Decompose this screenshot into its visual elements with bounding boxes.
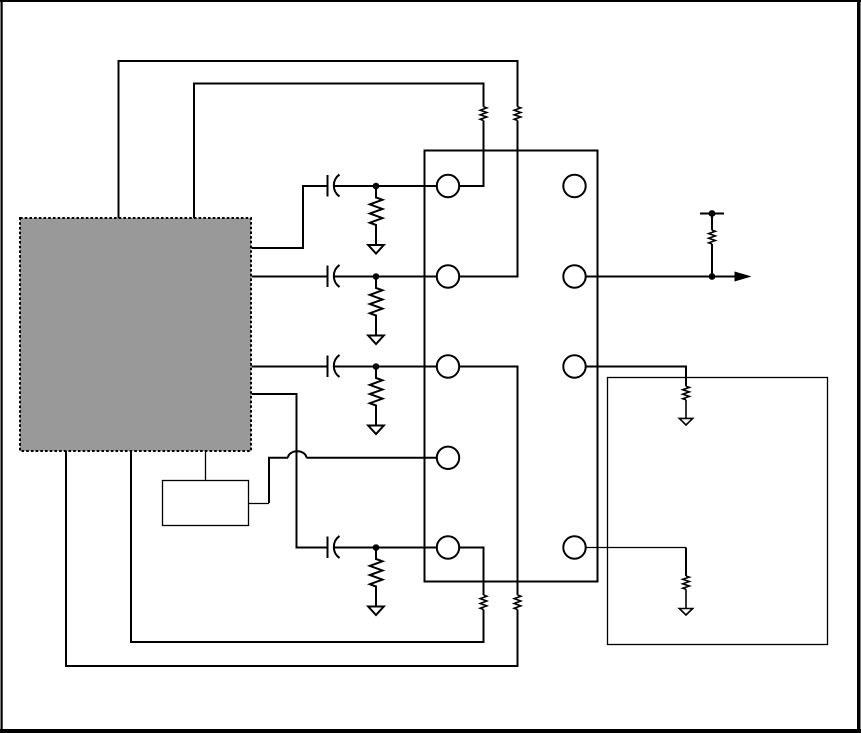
resistor R10 xyxy=(683,386,690,400)
ground xyxy=(368,607,384,616)
wire: pin 8 to R10 xyxy=(586,367,686,387)
resistor R9 xyxy=(709,230,716,244)
wire: R8 to U1 bottom pin xyxy=(66,451,518,666)
wire: R9 upper lead xyxy=(711,214,713,231)
wire: pin 7 to output xyxy=(586,276,736,278)
resistor R8 xyxy=(514,595,521,610)
wire: R9 lower lead xyxy=(711,244,713,277)
wire: R5 to pin 1 xyxy=(459,121,483,187)
wire: C1 to pin 1 xyxy=(334,185,437,187)
wire: U1 pin to C4 xyxy=(252,394,328,548)
junction dot xyxy=(710,274,715,279)
wire: U1 pin to C2 xyxy=(252,276,328,278)
wire: R6 to pin 2 xyxy=(459,121,517,277)
resistor R3 xyxy=(370,367,383,426)
pin 3 xyxy=(437,355,459,377)
pin 9 xyxy=(563,536,585,558)
wire: U1 bottom to Y1 xyxy=(205,451,207,481)
arrow output xyxy=(736,273,749,280)
wire: pin 5 to R7 xyxy=(459,548,483,596)
ground xyxy=(679,609,692,616)
wire: U1 top pin to R5 xyxy=(194,84,484,219)
junction dot xyxy=(374,364,379,369)
wire: R10 to ground xyxy=(685,400,687,419)
terminal bar VT xyxy=(700,213,724,215)
pin 4 xyxy=(437,447,459,469)
wire: U1 top pin to R6 xyxy=(119,61,518,218)
wire: pin 3 to R8 xyxy=(459,367,517,596)
junction dot xyxy=(374,184,379,189)
pin 7 xyxy=(563,265,585,287)
resistor R5 xyxy=(480,107,487,121)
resistor R11 xyxy=(683,576,690,589)
wire: C4 to pin 5 xyxy=(334,547,437,549)
resistor R6 xyxy=(514,107,521,121)
pin 2 xyxy=(437,265,459,287)
ground xyxy=(368,245,384,254)
capacitor C2 xyxy=(328,265,340,287)
junction dot xyxy=(374,545,379,550)
pin 6 xyxy=(563,175,585,197)
IC U1 xyxy=(20,218,251,451)
connector J1 xyxy=(425,151,598,582)
ground xyxy=(368,426,384,435)
wire: Y1 to riser xyxy=(249,503,270,505)
crystal Y1 xyxy=(163,481,249,526)
capacitor C3 xyxy=(328,355,340,377)
resistor R7 xyxy=(480,595,487,610)
module box M1 xyxy=(608,378,828,645)
ground xyxy=(368,336,384,345)
ground xyxy=(679,418,692,425)
wire: R11 upper lead xyxy=(685,548,687,577)
capacitor C1 xyxy=(328,175,340,197)
junction dot xyxy=(710,211,715,216)
wire: R11 to ground xyxy=(685,589,687,608)
wire: U1 pin to C3 xyxy=(252,366,328,368)
resistor R2 xyxy=(370,277,383,336)
wire: hop to pin 4 xyxy=(306,457,436,459)
resistor R4 xyxy=(370,548,383,607)
resistor R1 xyxy=(370,186,383,245)
wire: pin 9 to R11 xyxy=(586,547,686,549)
wire: U1 pin to C1 xyxy=(252,186,328,248)
wire: riser to hop xyxy=(269,458,288,503)
wire hop xyxy=(288,451,306,458)
pin 1 xyxy=(437,175,459,197)
wire: C2 to pin 2 xyxy=(334,276,437,278)
pin 8 xyxy=(563,355,585,377)
junction dot xyxy=(374,274,379,279)
pin 5 xyxy=(437,536,459,558)
wire: R7 to U1 bottom pin xyxy=(131,451,484,642)
capacitor C4 xyxy=(328,536,340,558)
wire: C3 to pin 3 xyxy=(334,366,437,368)
